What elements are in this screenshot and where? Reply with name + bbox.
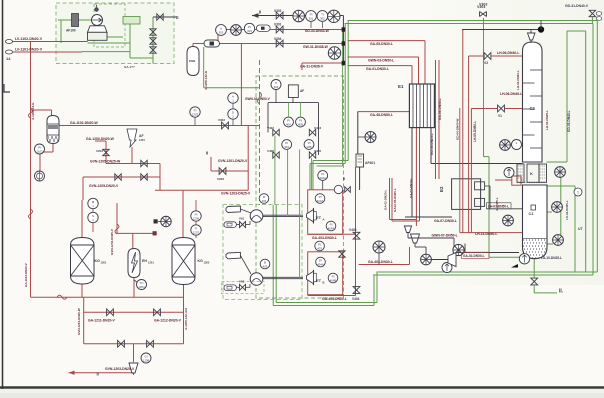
red blowdown loop left [83,297,85,344]
svg-text:404A: 404A [319,176,326,180]
svg-text:GA-02-DN50-L: GA-02-DN50-L [463,254,485,258]
red EH1201 outlet [133,277,135,297]
valve inter-ET [339,251,345,257]
svg-text:GVN-1203-DN20-V: GVN-1203-DN20-V [105,367,135,371]
red GA-07 cross line [390,219,417,221]
svg-text:LH-06-DN40-L: LH-06-DN40-L [497,51,519,55]
red GA-48 line to E1 [358,111,410,113]
svg-text:GA-03-DN30-L: GA-03-DN30-L [409,177,413,198]
svg-text:GWN-03-DN50-V: GWN-03-DN50-V [245,97,271,101]
line to drum funnel [432,259,449,261]
red GA-01 line [348,65,413,67]
svg-text:GA13-05-DN30-L: GA13-05-DN30-L [393,188,397,212]
dark LH-07 line to column [431,163,523,165]
green pipe vessel PHB top [192,44,194,48]
svg-text:404: 404 [262,199,267,203]
svg-text:V304: V304 [274,37,282,41]
ETb cone [307,271,314,283]
svg-text:GA-02-DN30-L: GA-02-DN30-L [384,189,388,210]
E2 exchanger box [452,179,481,210]
ETa PI circles [315,194,325,204]
instrument 31-53 [328,47,340,59]
red GA-1102 hdr drop [247,126,249,191]
vessel H2 [47,116,59,144]
PI circles pair1 [284,117,294,127]
valve stack v1 [150,29,156,35]
svg-text:404A: 404A [317,199,324,203]
svg-text:AF401: AF401 [365,161,375,165]
red ET supply verticals [389,178,391,220]
column C2 shell [523,42,543,162]
red ET riser [355,167,357,296]
GD-31 valve [589,10,595,16]
svg-text:14: 14 [6,56,11,61]
svg-text:GW-31-DN38-W: GW-31-DN38-W [303,45,329,49]
svg-text:A-1206-132-G: A-1206-132-G [204,70,208,90]
svg-text:PHB: PHB [189,59,196,63]
red KG1202 outlet [183,285,185,344]
valve stack v2 [150,38,156,44]
svg-text:II: II [343,176,345,181]
svg-text:403: 403 [317,246,322,250]
svg-text:A: A [323,218,325,222]
funnel drain 1 [404,226,411,233]
green loop right inner vertical [592,24,594,276]
svg-text:40A: 40A [284,145,289,149]
C1 lower vessel shell [523,185,548,259]
svg-text:V302: V302 [218,118,225,122]
svg-text:V62: V62 [239,279,245,283]
green main loop outer top pipe [348,20,598,22]
spine break squiggles [29,108,33,118]
svg-text:GVN-1203-DN25-V: GVN-1203-DN25-V [221,192,251,196]
AF filter box [288,85,298,98]
svg-text:V404: V404 [352,297,360,301]
valves V402 V403 [273,129,279,135]
svg-text:GVN-1204-DN25-V: GVN-1204-DN25-V [110,229,114,255]
red E1 outlet verticals [411,127,413,217]
pump1 discharge to ETa [263,214,303,216]
vessel PHB [187,47,199,76]
funnel drain 3 [448,253,456,267]
dark GA-02 line to drum [456,252,519,254]
valve V304 [276,40,283,47]
red GVN-1205 row2 [83,176,160,178]
heater EH1201 [128,249,140,278]
svg-text:V203: V203 [96,149,103,153]
svg-text:1202: 1202 [204,261,210,265]
circle GI [141,353,151,363]
ETb PI circle [328,273,338,283]
C1 nozzle box [531,205,536,210]
svg-text:402: 402 [274,85,279,89]
svg-text:V402: V402 [267,126,274,130]
valve V301 [276,26,283,33]
junction dot [538,26,544,32]
svg-text:LV-1101-DN20-V: LV-1101-DN20-V [15,48,43,52]
svg-text:GD-31-DN40-V: GD-31-DN40-V [565,4,589,8]
svg-text:1207: 1207 [193,230,200,234]
svg-text:A-DN25-L: A-DN25-L [495,197,499,211]
green compressor box pipes [58,19,92,21]
svg-text:40A: 40A [286,122,291,126]
KG1202 instruments [191,211,201,221]
red GVN-1205 row1 [106,163,160,165]
green bottom pipe pair left section [276,302,377,304]
red top header row2 [218,29,343,31]
svg-text:GA-403-DN30-L: GA-403-DN30-L [368,260,393,264]
GB valve cluster [334,185,342,193]
ejector fan [421,254,432,265]
valve V202 [219,168,226,175]
green drum bottom outlet [533,259,535,278]
valve V-drain [531,278,538,285]
svg-text:GA-03-DN30-L: GA-03-DN30-L [438,98,442,120]
green bottom pipe pair right section [377,271,598,273]
svg-text:1208: 1208 [143,358,150,362]
red feed line LV-1101 [8,51,82,53]
K dotted bottom [517,181,547,183]
svg-text:GA-01-DN30-L: GA-01-DN30-L [366,67,389,71]
manifold drop greens [274,136,276,206]
svg-text:GWN-07-DN50-L: GWN-07-DN50-L [432,234,458,238]
dark GA-07 line [405,216,452,218]
svg-text:1301: 1301 [139,138,145,142]
red drop to KG1202 [182,190,184,238]
reactor KG1202 [172,238,195,285]
green loop right outer vertical [596,21,598,273]
svg-text:LH-03-DN40-L: LH-03-DN40-L [516,70,520,90]
svg-text:1201: 1201 [101,261,107,265]
pump circle 1 [250,210,263,223]
svg-text:GA-404-DN30-L: GA-404-DN30-L [322,297,347,301]
red GA-1102 line [59,125,260,127]
svg-text:GVN-1215-DN25-W: GVN-1215-DN25-W [77,308,81,335]
svg-text:GA-403-DN30-L: GA-403-DN30-L [312,236,337,240]
svg-text:LS-04-DN25-L: LS-04-DN25-L [565,200,569,220]
small circle 1 [574,188,582,196]
TI circle [271,80,281,90]
left flanges [6,40,13,44]
green ejector skid verticals [275,205,277,303]
green dashed battery-limit box top-left [56,3,174,64]
green GD-03 vertical [566,31,568,162]
svg-text:LH-05-DN50-L: LH-05-DN50-L [473,121,477,142]
vent arrow top [252,15,343,17]
svg-text:303: 303 [219,30,224,34]
valve stack v3 [150,47,156,53]
red GA-05 line [348,40,426,42]
svg-text:II: II [259,10,261,15]
svg-text:V405: V405 [267,149,274,153]
svg-text:V2: V2 [484,61,488,65]
KG1201 instruments [88,198,98,208]
svg-text:304: 304 [247,29,252,33]
inst box 1 [224,222,236,228]
red GA-1200 branch [95,140,106,142]
svg-text:1103: 1103 [36,149,42,153]
inst pair left of column [500,140,511,151]
pump circle 2 [250,273,263,286]
inline filter capsule [204,40,220,47]
svg-text:GA-1200-DN20-W: GA-1200-DN20-W [86,137,115,141]
red riser to GVN-1203 [159,164,161,191]
valve on GA-1102 [222,122,229,129]
compressor circle [92,15,103,26]
GB403 blower circle [373,241,385,253]
red H2 vessel feed [31,109,52,111]
svg-text:GD-03-DN40-L: GD-03-DN40-L [567,110,571,132]
svg-text:403: 403 [263,264,268,268]
svg-text:KG: KG [95,259,101,263]
pump2 discharge to ETb [263,276,303,278]
break squiggle on battery limit [258,92,262,104]
fan K right [555,167,566,178]
svg-text:GD-03-DN25-L: GD-03-DN25-L [430,133,434,155]
green V303 drop pipe [483,18,485,157]
sheet border left [2,0,4,389]
svg-text:II: II [97,372,99,377]
svg-text:A-1205-132-A10: A-1205-132-A10 [184,307,188,330]
inst box 2 [224,285,236,291]
red E2 drop lines [415,190,417,226]
svg-text:KG: KG [198,259,204,263]
K reboiler section [517,164,524,182]
valves GVN-1205 [115,174,121,180]
filter AF100 [72,14,79,27]
svg-text:AF: AF [300,89,304,93]
compressor base [88,32,108,40]
dark GWN-07 line [408,237,454,239]
dark E1 outlet to K [430,127,432,164]
svg-text:EH: EH [142,259,147,263]
circles near PHB [190,107,200,117]
svg-text:II: II [206,151,208,156]
svg-text:LH-06-DN40-L: LH-06-DN40-L [500,92,522,96]
red drop to blower [357,112,359,154]
svg-text:GA-1103-DN20-V: GA-1103-DN20-V [24,263,28,287]
red GA-1211 line [84,311,184,313]
svg-text:GD-04-DN40-W: GD-04-DN40-W [456,118,460,140]
valves V405 V406 [273,152,279,158]
top right valve [157,14,163,20]
svg-text:LA-10-DN25-L: LA-10-DN25-L [541,256,562,260]
svg-text:404A: 404A [317,262,324,266]
ETa cone [307,210,314,222]
red KG1201 inst stem [92,198,94,232]
dark riser top header [342,16,344,66]
svg-text:40B: 40B [298,122,303,126]
cooler box green [123,17,140,25]
E1 exchanger [409,84,434,128]
black flag [511,264,518,268]
valve V1 [498,105,505,112]
pump bottom drum [519,254,529,264]
inst right low [553,235,564,246]
svg-text:404B: 404B [330,278,337,282]
inst circle 2 arrow [504,168,514,178]
svg-text:GA-07-DN30-L: GA-07-DN30-L [434,219,457,223]
red riser GD-04 [459,108,461,233]
red full-height risers [435,60,437,179]
funnel AF1301 [127,129,137,147]
green loop left verticals from top [347,21,349,161]
pump circle drain [442,263,452,273]
svg-text:V403: V403 [314,126,321,130]
svg-text:40B: 40B [307,145,312,149]
junction blobs [342,27,346,31]
red GA-403 main [409,247,411,265]
dashed box ET skid [256,76,344,298]
valve V302 [276,12,283,19]
svg-text:GA-1211-DN20-V: GA-1211-DN20-V [88,319,115,323]
svg-text:404A: 404A [328,226,335,230]
red bottom header [31,296,184,298]
PI 404 [316,257,326,267]
green dashed box ejector skid [223,205,302,300]
PI 403 [315,241,325,251]
svg-text:V1: V1 [498,114,502,118]
red vertical capsule to GA-1102 [240,44,242,126]
svg-text:GA-1102-DN20-W: GA-1102-DN20-W [70,121,98,125]
ejector horn 2 [226,252,240,258]
dark LH-07 feed to C1 [485,185,490,187]
green drain to battery limit [533,285,535,293]
red KG1202 inst stem [195,200,197,238]
svg-text:302: 302 [320,16,325,20]
green bottom step vertical [376,272,378,303]
compressor body trapezoid [88,26,108,33]
C1 packing dots [523,238,548,240]
stems [310,22,312,28]
ejector horn 1 [226,206,240,213]
svg-text:A-1206-13-G: A-1206-13-G [31,102,35,120]
svg-text:1201: 1201 [148,261,154,265]
green pipe pair into ET area [313,160,348,162]
svg-text:II: II [176,15,179,20]
svg-text:1204: 1204 [138,285,145,289]
svg-text:GWN-03-DN50-L: GWN-03-DN50-L [368,59,394,63]
svg-text:V405: V405 [349,228,357,232]
valve V405 [353,232,360,239]
svg-text:GVN-1205-DN20-V: GVN-1205-DN20-V [89,184,119,188]
svg-text:1206: 1206 [193,216,200,220]
red GVN-1203 line [155,189,248,191]
svg-text:GD-33-DN43-W: GD-33-DN43-W [305,29,330,33]
svg-text:301: 301 [309,16,314,20]
red LH-14 line [460,232,523,234]
instrument row 2 [216,25,227,36]
svg-text:V302: V302 [274,9,282,13]
svg-text:C1: C1 [529,211,535,216]
inst near drum [453,244,464,255]
svg-text:GA-1??: GA-1?? [124,65,135,69]
red left spine [30,42,32,298]
red LH-06 lower [470,109,472,233]
red AF1301 drop [131,147,133,164]
red KG1201 outlet [81,283,83,297]
red drop to KG1201 [82,177,84,200]
H2 spine instruments [35,144,45,154]
red feed line LV-1102 [8,41,88,43]
svg-text:GA-48-DN50-L: GA-48-DN50-L [370,113,393,117]
blower circle ET [365,132,376,143]
dark dashed battery limit vertical [259,60,261,205]
svg-text:ET: ET [316,278,322,283]
inst right mid [552,202,563,213]
svg-text:GA-31-DN38-V: GA-31-DN38-V [300,65,324,69]
valve V404 [353,287,360,294]
svg-text:V406: V406 [314,149,321,153]
red funnel drop [133,344,135,362]
red top right riser 1 [462,30,464,233]
red GA-403 branch line [308,233,356,235]
svg-text:GVN-1201-DN20-V: GVN-1201-DN20-V [218,159,248,163]
inst left of C1 [503,215,514,226]
inst circle mid [161,216,171,226]
svg-text:GA-1212-DN20-V: GA-1212-DN20-V [154,319,182,323]
PI circles pair2 [282,140,292,150]
svg-text:AF: AF [139,134,144,138]
funnel bottom drain [129,363,138,373]
red GA-1213 line [84,343,184,345]
red GWN-03 line [348,56,419,58]
red GA-404 branch line [308,295,356,297]
green GD-31 branch [567,30,586,32]
svg-text:ET: ET [316,215,322,220]
circle B404 [259,194,269,204]
svg-text:GVN-1205-DN25-W: GVN-1205-DN25-W [90,160,121,164]
valve skid2 [240,284,246,290]
circle B403 [260,259,270,269]
red header row4 [302,62,343,64]
circle TC1204 [137,280,147,290]
red H2 outlet [52,143,54,152]
svg-text:AF100: AF100 [66,29,76,33]
manifold frame verticals [267,103,269,133]
valve V203 [103,149,109,155]
instrument row 1 [293,10,305,22]
sheet border bottom [0,386,604,388]
bottom loop valves [107,309,114,316]
green main loop inner top pipe [345,23,594,25]
svg-text:E1: E1 [398,84,404,89]
red EH1201 riser [116,203,118,233]
red ETa box [308,190,343,235]
red GVN-1201 branch [210,157,212,171]
svg-text:1203: 1203 [192,112,199,116]
svg-text:V61: V61 [239,217,245,221]
red AF401 drop [359,167,361,190]
svg-text:V301: V301 [274,23,282,27]
green dashed inner box compressor [94,4,125,47]
V303 valve [480,12,487,17]
PI 404A above ETa [318,171,328,181]
green column right riser [560,177,562,235]
column C2 trays [530,69,542,71]
svg-text:E2: E2 [439,186,444,192]
red K-section feed box [512,176,521,185]
red LH-06 riser V2 [468,56,470,233]
svg-text:K: K [530,171,533,176]
green loop right mid vertical [585,31,587,272]
svg-text:GA-05-DN30-L: GA-05-DN30-L [370,42,393,46]
svg-text:C2: C2 [530,106,536,111]
red ETb box [308,252,343,295]
green pipe PHB to ET [204,87,260,89]
manifold header [268,102,319,104]
red GVN-1203 outlet line [69,372,134,374]
